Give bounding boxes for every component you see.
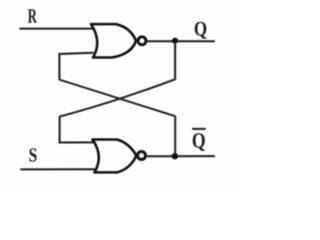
wire R input xyxy=(20,28,95,30)
wire top-gate lower input xyxy=(58,53,93,54)
node Q-bar junction xyxy=(172,153,178,159)
NOR gate U2 (bottom) body xyxy=(93,140,137,173)
wire bottom-gate upper input xyxy=(59,141,94,143)
output label Q xyxy=(195,22,207,39)
wire Q right vertical upper xyxy=(174,41,176,80)
node Q junction xyxy=(172,38,178,44)
wire U2 output to Q-bar xyxy=(147,155,215,157)
output bubble U2 xyxy=(138,152,146,160)
input label R xyxy=(28,9,37,22)
output bubble U1 xyxy=(138,37,146,45)
wire Q diagonal upper-right to lower-left xyxy=(60,79,176,116)
wire feedback diagonal lower-left to right xyxy=(59,80,175,117)
wire U1 output to Q xyxy=(147,40,214,42)
wire feedback left vertical lower xyxy=(59,116,61,143)
overbar of Q-bar xyxy=(192,128,206,130)
wire S input xyxy=(20,168,95,170)
output label Q-bar xyxy=(193,133,205,151)
NOR gate U1 (top) body xyxy=(91,24,136,57)
wire feedback left vertical upper xyxy=(58,53,60,80)
input label S xyxy=(29,148,36,161)
wire feedback right vertical lower xyxy=(174,116,176,157)
